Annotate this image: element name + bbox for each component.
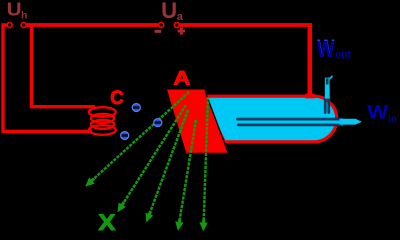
- svg-text:W: W: [367, 102, 389, 124]
- svg-text:U: U: [7, 0, 22, 20]
- svg-text:W: W: [317, 36, 335, 62]
- svg-text:U: U: [161, 0, 177, 23]
- svg-text:out: out: [335, 48, 351, 62]
- svg-text:X: X: [98, 210, 115, 235]
- svg-text:C: C: [110, 88, 124, 109]
- svg-text:in: in: [388, 114, 397, 126]
- svg-text:A: A: [173, 68, 190, 90]
- svg-text:h: h: [21, 10, 27, 22]
- svg-text:a: a: [177, 11, 184, 23]
